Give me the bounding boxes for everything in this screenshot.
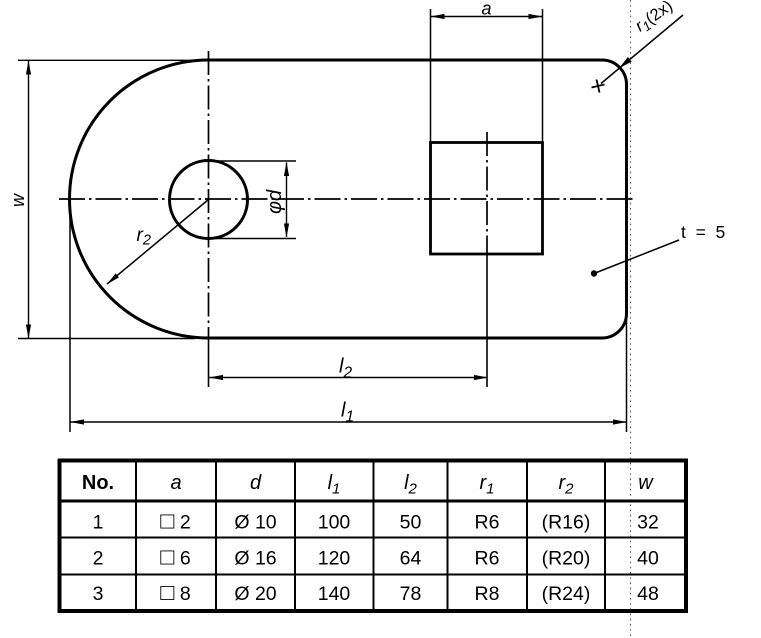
extension line l2 right [486,255,488,387]
table header [82,472,654,498]
dimension a line [431,16,542,18]
svg-text:a: a [170,472,181,494]
dimension l2 line [210,377,488,379]
svg-text:48: 48 [637,583,659,605]
svg-text:No.: No. [82,472,114,494]
leader r1 [601,15,683,84]
table row 1 [93,508,659,534]
table grid [60,461,687,612]
svg-text:50: 50 [400,512,422,534]
svg-text:□ 8: □ 8 [160,579,190,605]
svg-text:120: 120 [318,548,351,570]
svg-text:(R16): (R16) [542,512,591,534]
dimension w extension bottom [18,338,195,340]
leader dot [591,270,597,276]
table row 2 [93,544,659,570]
dimension w line [28,61,30,338]
svg-text:Ø 10: Ø 10 [234,512,276,534]
arrowhead r1 [619,57,632,68]
square cutout a [431,143,543,255]
leader r2 [107,200,209,285]
vertical centerline of hole [208,51,210,340]
leader t=5 [594,240,679,274]
svg-text:1: 1 [93,512,104,534]
table row 3 [93,579,659,605]
svg-text:d: d [250,472,262,494]
dimension phi-d extension bottom [202,238,296,240]
svg-text:32: 32 [637,512,659,534]
svg-text:64: 64 [400,548,422,570]
dimension phi-d extension top [202,160,296,162]
corner radius center mark [592,80,605,93]
dimension l1 line [71,421,627,423]
fold line (dotted vertical) [630,0,632,638]
dimension a extension left [430,9,432,143]
svg-text:R8: R8 [475,583,500,605]
extension line l2 left [208,340,210,387]
svg-text:t = 5: t = 5 [681,222,725,242]
svg-text:w: w [8,193,28,207]
extension line l1 left [69,202,71,432]
part outline [70,60,627,338]
hole circle d [170,161,248,239]
svg-text:78: 78 [400,583,422,605]
svg-text:□ 6: □ 6 [160,544,190,570]
vertical centerline of square [486,132,488,255]
svg-text:100: 100 [318,512,351,534]
svg-text:(R24): (R24) [542,583,591,605]
svg-text:Ø 16: Ø 16 [234,548,276,570]
dimension phi-d line [286,163,288,238]
horizontal centerline [59,198,636,200]
svg-text:a: a [482,0,492,19]
svg-text:2: 2 [93,548,104,570]
svg-text:φd: φd [264,189,286,214]
svg-text:R6: R6 [475,512,500,534]
dimension a extension right [542,9,544,143]
svg-text:R6: R6 [475,548,500,570]
svg-text:Ø 20: Ø 20 [234,583,276,605]
svg-text:140: 140 [318,583,351,605]
svg-text:3: 3 [93,583,104,605]
svg-text:□ 2: □ 2 [160,508,190,534]
svg-text:w: w [638,472,654,494]
dimension w extension top [18,59,205,61]
extension line l1 right [626,313,628,432]
svg-text:40: 40 [637,548,659,570]
svg-text:(R20): (R20) [542,548,591,570]
